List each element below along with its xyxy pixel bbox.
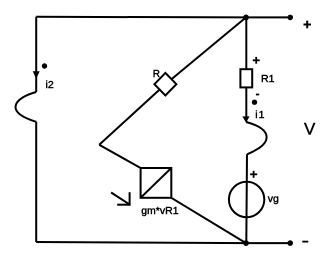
junction dot bottom-right [243, 240, 249, 246]
wire diagonal: top-right junction through resistor R to left vertex [99, 17, 246, 144]
plus sign vg [250, 173, 257, 175]
wire left vertical upper (with current arrow i2) [35, 17, 37, 92]
plus sign R1 [253, 59, 260, 61]
resistor R (diamond body) [154, 73, 176, 96]
terminal dot top-right end [287, 15, 293, 21]
voltage source vg (circle) [229, 182, 264, 217]
terminal dot bottom-right end [287, 240, 293, 246]
wire diagonal: left vertex to controlled source box [99, 145, 140, 168]
svg-text:R1: R1 [261, 73, 275, 85]
wire right vertical from top junction to R1 [245, 17, 247, 70]
svg-text:gm*vR1: gm*vR1 [141, 205, 179, 217]
plus sign top-right [304, 24, 312, 26]
wire right vertical from R1 to i1 arrow [245, 87, 247, 122]
control arrow (to SE) near gm*vR1 [111, 193, 129, 205]
wire left bump [15, 92, 36, 122]
junction dot top-right [243, 15, 249, 21]
controlled source gm*vR1 (square body with diagonal) [141, 168, 172, 198]
wire right bump [246, 122, 266, 154]
svg-text:i2: i2 [46, 79, 54, 91]
wire right vertical through source vg to bottom junction [245, 154, 248, 243]
svg-text:R: R [153, 69, 160, 80]
probe dot i2 [42, 63, 47, 68]
wire left vertical lower [35, 122, 37, 242]
arrowhead current i1 [242, 116, 249, 122]
minus sign R1 [256, 94, 259, 96]
wire top: from top-left corner to right terminal [36, 16, 290, 19]
wire diagonal: controlled source box to bottom-right junction [171, 198, 246, 243]
minus sign bottom-right [302, 241, 308, 243]
svg-text:V: V [304, 120, 316, 139]
svg-text:vg: vg [268, 193, 279, 205]
resistor R1 (box body) [240, 69, 252, 87]
arrowhead current i2 [33, 71, 40, 79]
wire bottom: from bottom-left corner to right terminal [36, 242, 290, 243]
probe dot i1 [252, 100, 257, 105]
svg-text:i1: i1 [255, 109, 264, 121]
